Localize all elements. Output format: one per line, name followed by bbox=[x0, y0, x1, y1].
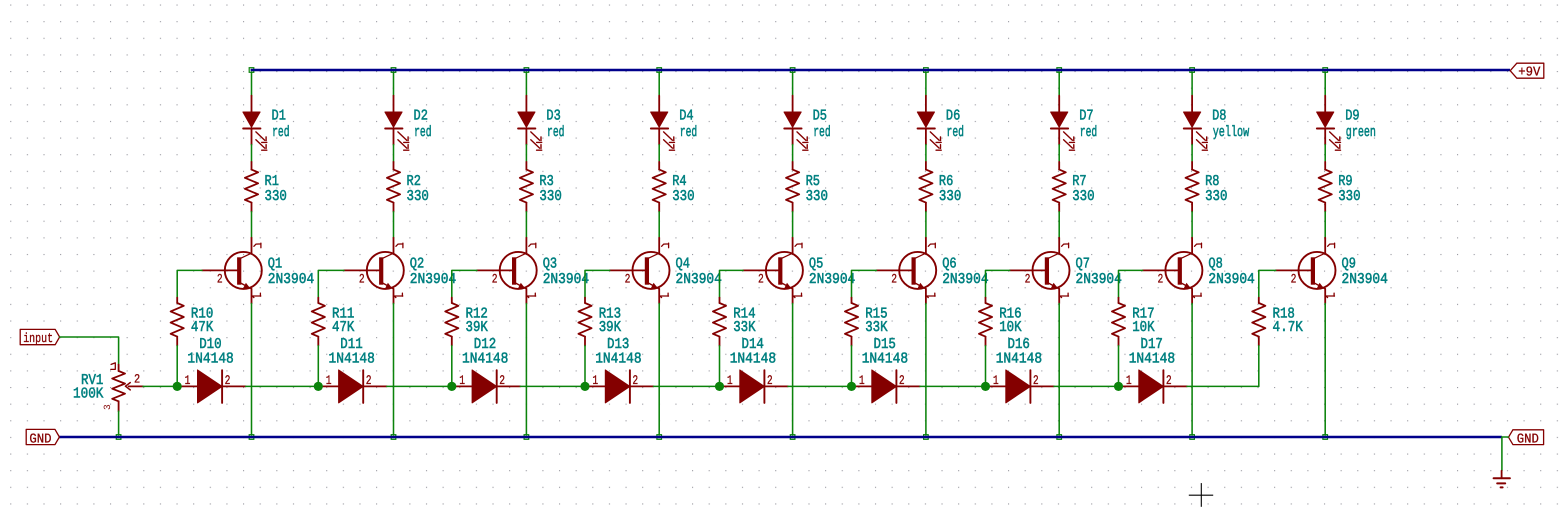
label R3 330 bbox=[539, 173, 561, 205]
transistor Q1 2N3904 bbox=[202, 238, 262, 304]
svg-text:1: 1 bbox=[727, 373, 733, 388]
junction node 8 dot bbox=[1114, 382, 1123, 391]
label R5 330 bbox=[806, 173, 828, 205]
wire R17 to node 8 bbox=[1118, 346, 1120, 387]
label D2 red bbox=[414, 108, 432, 141]
wire D12 cathode to next node bbox=[520, 385, 585, 387]
junction square column 5 on GND rail bbox=[790, 435, 795, 440]
wire Q4 base to R13 bbox=[585, 270, 610, 297]
svg-text:Q9: Q9 bbox=[1342, 256, 1356, 273]
svg-text:3: 3 bbox=[102, 404, 113, 410]
svg-text:10K: 10K bbox=[1132, 319, 1154, 336]
svg-text:2N3904: 2N3904 bbox=[410, 271, 456, 288]
svg-text:D6: D6 bbox=[946, 108, 960, 125]
svg-text:1: 1 bbox=[1126, 373, 1132, 388]
label R17 value bbox=[1132, 305, 1154, 336]
svg-text:1N4148: 1N4148 bbox=[462, 350, 508, 367]
wire R15 to node 6 bbox=[851, 346, 853, 387]
svg-text:330: 330 bbox=[939, 188, 961, 205]
svg-text:Q1: Q1 bbox=[268, 256, 282, 273]
label D17 1N4148 bbox=[1129, 336, 1175, 368]
svg-text:+9V: +9V bbox=[1518, 65, 1541, 80]
LED D3 bbox=[518, 96, 542, 151]
label D12 1N4148 bbox=[462, 336, 508, 368]
junction square column 6 on GND rail bbox=[924, 435, 929, 440]
resistor R13 39K bbox=[578, 298, 591, 346]
label Q1 2N3904 bbox=[268, 256, 314, 289]
diode D17 1N4148 bbox=[1120, 370, 1188, 403]
wire Q2 emitter to GND bbox=[393, 304, 395, 436]
wire rail to LED D6 bbox=[925, 72, 927, 96]
wire D13 cathode to next node bbox=[654, 385, 720, 387]
label D14 1N4148 bbox=[730, 336, 776, 368]
svg-text:red: red bbox=[547, 124, 564, 141]
wire R1 to Q1 collector bbox=[251, 212, 253, 238]
svg-text:1N4148: 1N4148 bbox=[996, 350, 1042, 367]
diode D12 1N4148 bbox=[453, 370, 521, 403]
svg-text:Q4: Q4 bbox=[676, 256, 690, 273]
label D5 red bbox=[813, 108, 831, 141]
svg-text:1: 1 bbox=[185, 373, 191, 388]
label R8 330 bbox=[1205, 173, 1227, 205]
label R13 value bbox=[599, 305, 621, 336]
svg-text:2: 2 bbox=[492, 272, 498, 287]
wire R16 to node 7 bbox=[985, 346, 987, 387]
svg-text:2: 2 bbox=[1158, 272, 1164, 287]
junction node 3 dot bbox=[447, 382, 456, 391]
svg-text:2: 2 bbox=[625, 272, 631, 287]
svg-text:2: 2 bbox=[767, 373, 773, 388]
wire rail to LED D5 bbox=[792, 72, 794, 96]
wire Q3 emitter to GND bbox=[525, 304, 527, 436]
svg-text:1: 1 bbox=[459, 373, 465, 388]
wire Q9 emitter to GND bbox=[1324, 304, 1326, 436]
label D10 1N4148 bbox=[187, 336, 233, 368]
wire Q1 base to R10 bbox=[177, 270, 202, 297]
wire D8 to R8 bbox=[1191, 145, 1193, 162]
wire Q7 base to R16 bbox=[986, 270, 1010, 297]
LED D2 bbox=[385, 96, 409, 151]
svg-text:D8: D8 bbox=[1212, 108, 1226, 125]
transistor Q9 2N3904 bbox=[1276, 238, 1336, 304]
label R16 value bbox=[999, 305, 1021, 336]
svg-text:33K: 33K bbox=[865, 319, 887, 336]
label R12 value bbox=[466, 305, 488, 336]
hierarchical label GND right bbox=[1509, 430, 1544, 448]
svg-text:2: 2 bbox=[225, 373, 231, 388]
svg-text:Q3: Q3 bbox=[543, 256, 557, 273]
junction square column 1 on +9V rail bbox=[249, 68, 254, 73]
svg-text:red: red bbox=[680, 124, 697, 141]
label Q6 2N3904 bbox=[942, 256, 988, 289]
junction square column 7 on GND rail bbox=[1057, 435, 1062, 440]
svg-text:D1: D1 bbox=[272, 108, 286, 125]
svg-text:yellow: yellow bbox=[1213, 124, 1250, 141]
junction square column 9 on GND rail bbox=[1323, 435, 1328, 440]
label R2 330 bbox=[407, 173, 429, 205]
wire D14 cathode to next node bbox=[788, 385, 852, 387]
svg-text:4.7K: 4.7K bbox=[1273, 319, 1303, 336]
LED D7 bbox=[1051, 96, 1075, 151]
wire D10 cathode to next node bbox=[246, 385, 319, 387]
junction node 2 dot bbox=[314, 382, 323, 391]
svg-text:Q7: Q7 bbox=[1076, 256, 1090, 273]
junction square column 3 on GND rail bbox=[524, 435, 529, 440]
junction square column 3 on +9V rail bbox=[524, 68, 529, 73]
wire D11 cathode to next node bbox=[387, 385, 452, 387]
svg-text:red: red bbox=[414, 124, 431, 141]
svg-text:Q6: Q6 bbox=[942, 256, 956, 273]
hierarchical label GND left bbox=[26, 429, 59, 447]
wire R3 to Q3 collector bbox=[525, 212, 527, 238]
wire Q6 emitter to GND bbox=[925, 304, 927, 436]
transistor Q2 2N3904 bbox=[344, 238, 404, 304]
junction node 7 dot bbox=[981, 382, 990, 391]
hierarchical label +9V bbox=[1510, 63, 1544, 80]
resistor R7 330 bbox=[1053, 162, 1066, 212]
label R10 value bbox=[191, 305, 213, 336]
wire Q1 emitter to GND bbox=[251, 304, 253, 436]
diode D10 1N4148 bbox=[178, 370, 246, 403]
label D1 red bbox=[272, 108, 290, 141]
svg-text:100K: 100K bbox=[73, 386, 103, 403]
svg-text:D3: D3 bbox=[546, 108, 560, 125]
svg-text:input: input bbox=[23, 331, 53, 346]
svg-text:D7: D7 bbox=[1079, 108, 1093, 125]
wire D17 cathode to next node bbox=[1187, 385, 1259, 387]
wire D7 to R7 bbox=[1058, 145, 1060, 162]
wire D1 to R1 bbox=[251, 145, 253, 162]
svg-text:2N3904: 2N3904 bbox=[676, 271, 722, 288]
svg-text:2: 2 bbox=[758, 272, 764, 287]
LED D4 bbox=[651, 96, 675, 151]
wire to power flag bbox=[1501, 437, 1503, 471]
svg-text:red: red bbox=[947, 124, 964, 141]
label R1 330 bbox=[265, 173, 287, 205]
svg-text:2: 2 bbox=[134, 372, 140, 386]
junction node 1 dot bbox=[173, 382, 182, 391]
label D8 yellow bbox=[1212, 108, 1249, 141]
diode D15 1N4148 bbox=[853, 370, 921, 403]
label R11 value bbox=[332, 305, 354, 336]
svg-text:330: 330 bbox=[1205, 188, 1227, 205]
transistor Q3 2N3904 bbox=[477, 238, 537, 304]
svg-text:2N3904: 2N3904 bbox=[268, 271, 314, 288]
label Q3 2N3904 bbox=[543, 256, 589, 289]
svg-text:GND: GND bbox=[1517, 432, 1539, 447]
label RV1 100K bbox=[73, 372, 103, 402]
svg-text:2: 2 bbox=[1166, 373, 1172, 388]
svg-text:330: 330 bbox=[672, 188, 694, 205]
label D3 red bbox=[546, 108, 564, 141]
label Q9 2N3904 bbox=[1342, 256, 1388, 289]
svg-text:2: 2 bbox=[359, 272, 365, 287]
wire rail to LED D3 bbox=[525, 72, 527, 96]
svg-text:2N3904: 2N3904 bbox=[543, 271, 589, 288]
label D9 green bbox=[1345, 108, 1376, 141]
wire R4 to Q4 collector bbox=[658, 212, 660, 238]
label D16 1N4148 bbox=[996, 336, 1042, 368]
junction square column 2 on +9V rail bbox=[391, 68, 396, 73]
resistor R11 47K bbox=[312, 298, 325, 346]
svg-text:1: 1 bbox=[859, 373, 865, 388]
svg-text:2N3904: 2N3904 bbox=[1342, 271, 1388, 288]
wire RV1 pin3 to GND bbox=[118, 411, 120, 435]
label D6 red bbox=[946, 108, 964, 141]
wire R18 to node 9 bbox=[1258, 346, 1260, 387]
svg-text:2N3904: 2N3904 bbox=[809, 271, 855, 288]
svg-text:2N3904: 2N3904 bbox=[1076, 271, 1122, 288]
svg-text:D5: D5 bbox=[813, 108, 827, 125]
label R9 330 bbox=[1338, 173, 1360, 205]
wire R8 to Q8 collector bbox=[1191, 212, 1193, 238]
wire RV1 wiper to node A bbox=[143, 385, 177, 387]
svg-text:2: 2 bbox=[891, 272, 897, 287]
svg-text:2N3904: 2N3904 bbox=[1208, 271, 1254, 288]
LED D8 bbox=[1184, 96, 1208, 151]
junction node 5 dot bbox=[715, 382, 724, 391]
svg-text:D4: D4 bbox=[679, 108, 693, 125]
wire Q9 base to R18 bbox=[1259, 270, 1276, 297]
junction node 4 dot bbox=[580, 382, 589, 391]
label Q7 2N3904 bbox=[1076, 256, 1122, 289]
wire R13 to node 4 bbox=[584, 346, 586, 387]
svg-text:39K: 39K bbox=[599, 319, 621, 336]
svg-text:39K: 39K bbox=[466, 319, 488, 336]
svg-text:1N4148: 1N4148 bbox=[595, 350, 641, 367]
svg-text:D2: D2 bbox=[414, 108, 428, 125]
wire D2 to R2 bbox=[393, 145, 395, 162]
wire D16 cathode to next node bbox=[1054, 385, 1119, 387]
wire rail to LED D2 bbox=[393, 72, 395, 96]
label D11 1N4148 bbox=[329, 336, 375, 368]
junction square column 8 on GND rail bbox=[1190, 435, 1195, 440]
transistor Q6 2N3904 bbox=[876, 238, 936, 304]
wire R14 to node 5 bbox=[719, 346, 721, 387]
svg-text:2N3904: 2N3904 bbox=[942, 271, 988, 288]
resistor R5 330 bbox=[786, 162, 799, 212]
ground symbol GND bbox=[1494, 471, 1510, 488]
diode D14 1N4148 bbox=[721, 370, 789, 403]
wire Q3 base to R12 bbox=[452, 270, 477, 297]
svg-text:Q8: Q8 bbox=[1208, 256, 1222, 273]
wire R5 to Q5 collector bbox=[792, 212, 794, 238]
svg-text:47K: 47K bbox=[191, 319, 213, 336]
svg-text:1: 1 bbox=[326, 373, 332, 388]
svg-text:1: 1 bbox=[592, 373, 598, 388]
wire D3 to R3 bbox=[525, 145, 527, 162]
wire +9V bus rail bbox=[251, 69, 1510, 71]
wire Q8 emitter to GND bbox=[1191, 304, 1193, 436]
junction square column 9 on +9V rail bbox=[1323, 68, 1328, 73]
resistor R4 330 bbox=[653, 162, 666, 212]
label D13 1N4148 bbox=[595, 336, 641, 368]
svg-text:2: 2 bbox=[1033, 373, 1039, 388]
wire rail to LED D1 bbox=[251, 72, 253, 96]
resistor R14 33K bbox=[713, 298, 726, 346]
wire D4 to R4 bbox=[658, 145, 660, 162]
resistor R16 10K bbox=[979, 298, 992, 346]
junction square column 7 on +9V rail bbox=[1057, 68, 1062, 73]
wire Q2 base to R11 bbox=[318, 270, 344, 297]
hierarchical label input bbox=[20, 329, 59, 346]
label Q8 2N3904 bbox=[1208, 256, 1254, 289]
svg-text:Q2: Q2 bbox=[410, 256, 424, 273]
svg-text:2: 2 bbox=[217, 272, 223, 287]
svg-text:2: 2 bbox=[366, 373, 372, 388]
wire GND bus rail bbox=[59, 436, 1502, 438]
label R6 330 bbox=[939, 173, 961, 205]
resistor R10 47K bbox=[171, 298, 184, 346]
wire R2 to Q2 collector bbox=[393, 212, 395, 238]
svg-text:2: 2 bbox=[899, 373, 905, 388]
junction square column 6 on +9V rail bbox=[924, 68, 929, 73]
LED D9 bbox=[1317, 96, 1341, 151]
wire Q6 base to R15 bbox=[852, 270, 877, 297]
wire rail to LED D9 bbox=[1324, 72, 1326, 96]
cursor crosshair bbox=[1189, 483, 1213, 507]
label R18 value bbox=[1273, 305, 1303, 336]
resistor R2 330 bbox=[387, 162, 400, 212]
resistor R17 10K bbox=[1112, 298, 1125, 346]
potentiometer RV1 bbox=[102, 363, 143, 411]
label R4 330 bbox=[672, 173, 694, 205]
wire Q7 emitter to GND bbox=[1058, 304, 1060, 436]
diode D11 1N4148 bbox=[319, 370, 387, 403]
junction square column 5 on +9V rail bbox=[790, 68, 795, 73]
svg-text:1: 1 bbox=[993, 373, 999, 388]
resistor R3 330 bbox=[520, 162, 533, 212]
label D15 1N4148 bbox=[862, 336, 908, 368]
LED D1 bbox=[243, 96, 267, 151]
svg-text:10K: 10K bbox=[999, 319, 1021, 336]
svg-text:GND: GND bbox=[29, 432, 51, 447]
svg-text:330: 330 bbox=[806, 188, 828, 205]
wire rail to LED D4 bbox=[658, 72, 660, 96]
svg-text:red: red bbox=[272, 124, 289, 141]
diode D16 1N4148 bbox=[987, 370, 1055, 403]
wire R11 to node 2 bbox=[317, 346, 319, 387]
wire rail to LED D8 bbox=[1191, 72, 1193, 96]
wire D9 to R9 bbox=[1324, 145, 1326, 162]
junction square column 1 on GND rail bbox=[249, 435, 254, 440]
wire Q8 base to R17 bbox=[1119, 270, 1143, 297]
svg-text:red: red bbox=[813, 124, 830, 141]
resistor R6 330 bbox=[919, 162, 932, 212]
junction node 6 dot bbox=[847, 382, 856, 391]
junction square column 4 on GND rail bbox=[657, 435, 662, 440]
label Q4 2N3904 bbox=[676, 256, 722, 289]
diode D13 1N4148 bbox=[586, 370, 654, 403]
svg-text:2: 2 bbox=[1025, 272, 1031, 287]
transistor Q8 2N3904 bbox=[1143, 238, 1203, 304]
wire rail to LED D7 bbox=[1058, 72, 1060, 96]
junction square column 8 on +9V rail bbox=[1190, 68, 1195, 73]
svg-text:2: 2 bbox=[632, 373, 638, 388]
svg-text:red: red bbox=[1080, 124, 1097, 141]
wire R12 to node 3 bbox=[451, 346, 453, 387]
svg-text:47K: 47K bbox=[332, 319, 354, 336]
junction square RV1 on GND rail bbox=[116, 435, 121, 440]
wire R10 to node 1 bbox=[176, 346, 178, 387]
svg-text:330: 330 bbox=[1072, 188, 1094, 205]
svg-text:green: green bbox=[1346, 124, 1376, 141]
label R14 value bbox=[733, 305, 755, 336]
resistor R1 330 bbox=[245, 162, 258, 212]
junction square column 4 on +9V rail bbox=[657, 68, 662, 73]
wire GND rail to label bbox=[1502, 436, 1508, 438]
svg-text:1N4148: 1N4148 bbox=[730, 350, 776, 367]
svg-text:1N4148: 1N4148 bbox=[862, 350, 908, 367]
svg-text:2: 2 bbox=[499, 373, 505, 388]
resistor R18 4.7K bbox=[1252, 298, 1265, 346]
wire R7 to Q7 collector bbox=[1058, 212, 1060, 238]
label R15 value bbox=[865, 305, 887, 336]
resistor R15 33K bbox=[845, 298, 858, 346]
transistor Q4 2N3904 bbox=[610, 238, 670, 304]
LED D6 bbox=[917, 96, 941, 151]
svg-text:330: 330 bbox=[407, 188, 429, 205]
svg-text:330: 330 bbox=[265, 188, 287, 205]
wire D5 to R5 bbox=[792, 145, 794, 162]
resistor R9 330 bbox=[1319, 162, 1332, 212]
resistor R12 39K bbox=[445, 298, 458, 346]
wire D6 to R6 bbox=[925, 145, 927, 162]
svg-text:2: 2 bbox=[1291, 272, 1297, 287]
wire R6 to Q6 collector bbox=[925, 212, 927, 238]
wire Q4 emitter to GND bbox=[658, 304, 660, 436]
LED D5 bbox=[784, 96, 808, 151]
svg-text:330: 330 bbox=[1338, 188, 1360, 205]
label Q5 2N3904 bbox=[809, 256, 855, 289]
wire input to RV1 bbox=[60, 337, 119, 365]
svg-text:330: 330 bbox=[539, 188, 561, 205]
transistor Q5 2N3904 bbox=[743, 238, 803, 304]
junction square column 2 on GND rail bbox=[391, 435, 396, 440]
wire D15 cathode to next node bbox=[920, 385, 986, 387]
svg-text:1N4148: 1N4148 bbox=[1129, 350, 1175, 367]
svg-text:Q5: Q5 bbox=[809, 256, 823, 273]
resistor R8 330 bbox=[1186, 162, 1199, 212]
svg-text:33K: 33K bbox=[733, 319, 755, 336]
label R7 330 bbox=[1072, 173, 1094, 205]
svg-text:1N4148: 1N4148 bbox=[187, 350, 233, 367]
label D4 red bbox=[679, 108, 697, 141]
svg-text:D9: D9 bbox=[1345, 108, 1359, 125]
wire R9 to Q9 collector bbox=[1324, 212, 1326, 238]
label Q2 2N3904 bbox=[410, 256, 456, 289]
transistor Q7 2N3904 bbox=[1010, 238, 1070, 304]
wire Q5 base to R14 bbox=[720, 270, 744, 297]
wire Q5 emitter to GND bbox=[792, 304, 794, 436]
label D7 red bbox=[1079, 108, 1097, 141]
svg-text:1N4148: 1N4148 bbox=[329, 350, 375, 367]
